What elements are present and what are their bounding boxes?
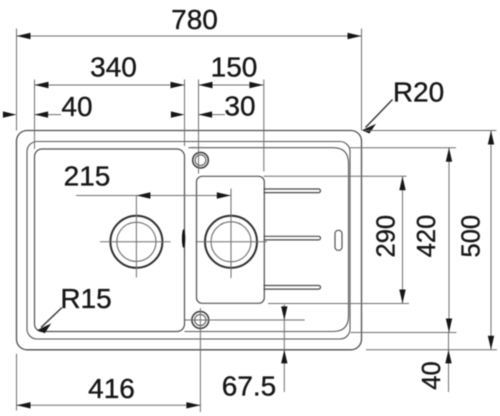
dim 290 arrows <box>399 176 405 303</box>
left bowl drain <box>110 216 162 268</box>
svg-text:780: 780 <box>171 4 218 35</box>
svg-text:290: 290 <box>373 215 401 258</box>
drainboard rib 3 <box>264 286 321 290</box>
right tick y=303.5 (290 bottom) <box>268 303 409 305</box>
overflow slot <box>335 230 342 250</box>
right tick y=176.3 (290 top) <box>264 175 407 177</box>
dim 290 line <box>402 176 404 303</box>
dim 340 line <box>35 84 185 86</box>
dim 780 arrows <box>17 33 362 39</box>
left drain crosshair <box>100 196 171 278</box>
dim 416 line <box>17 404 201 406</box>
svg-text:40: 40 <box>61 91 92 122</box>
right drain crosshair <box>196 189 268 279</box>
R15 arrow <box>37 323 51 333</box>
dim 30 leader line <box>199 114 226 116</box>
R20 arrow <box>362 124 376 134</box>
svg-text:416: 416 <box>88 373 135 404</box>
drainboard outline <box>185 148 349 332</box>
dim 416 arrows <box>17 402 201 408</box>
right tick y=130.5 (500 top) <box>365 130 497 132</box>
top tap hole <box>193 152 209 168</box>
dim 40 right outside arrow bottom <box>445 350 451 364</box>
dim 40 leader line <box>35 114 62 116</box>
svg-text:40: 40 <box>418 361 446 389</box>
dim 780 line <box>17 35 362 37</box>
divider clip dash <box>182 229 185 248</box>
R20 leader <box>366 100 393 128</box>
dim 420 arrows <box>446 148 452 333</box>
dim 150 line <box>199 84 264 86</box>
svg-text:150: 150 <box>211 51 258 82</box>
svg-text:30: 30 <box>224 91 255 122</box>
right tick y=147.7 (420 top) <box>349 147 457 149</box>
R15 leader <box>41 308 62 328</box>
dim 150 extension line <box>263 80 265 172</box>
svg-text:67.5: 67.5 <box>222 371 277 402</box>
dim 30 outside arrows <box>171 111 212 117</box>
dim 500 arrows <box>488 131 494 350</box>
dim 67.5 tick at tap center <box>185 319 305 321</box>
bottom tap hole <box>192 312 209 329</box>
svg-text:420: 420 <box>413 215 441 258</box>
dim 67.5 outside arrows <box>281 306 287 363</box>
dim 40 right vertical line <box>448 333 450 393</box>
right tick y=349.8 (500 bottom) <box>366 349 497 351</box>
right tick y=332.5 (420 bottom) <box>351 332 457 334</box>
svg-text:340: 340 <box>90 51 137 82</box>
drainboard rib 1 <box>264 189 321 193</box>
sink outer edge <box>17 131 362 350</box>
svg-text:R15: R15 <box>60 283 111 314</box>
dim 340 extension line <box>34 80 36 150</box>
dim 780 extension lines <box>17 29 362 131</box>
dim 40 outside arrows <box>3 111 48 117</box>
dim 416 extension lines <box>17 308 201 412</box>
right bowl drain <box>205 216 257 268</box>
small bowl <box>197 176 265 303</box>
drainboard rib 2 <box>264 236 321 240</box>
dim 67.5 vertical line <box>283 305 285 393</box>
dim 150 arrows <box>199 82 264 88</box>
dim 420 line <box>448 148 450 333</box>
dim 215 line <box>76 195 231 197</box>
left bowl <box>35 149 185 332</box>
svg-text:R20: R20 <box>393 77 444 108</box>
extension lines at divider <box>185 80 199 174</box>
dim 340 arrows <box>35 82 185 88</box>
sink rim inner line <box>27 142 350 340</box>
dim 500 line <box>490 131 492 350</box>
svg-text:215: 215 <box>64 161 111 192</box>
dim 215 arrows <box>136 192 230 198</box>
svg-text:500: 500 <box>457 215 485 258</box>
